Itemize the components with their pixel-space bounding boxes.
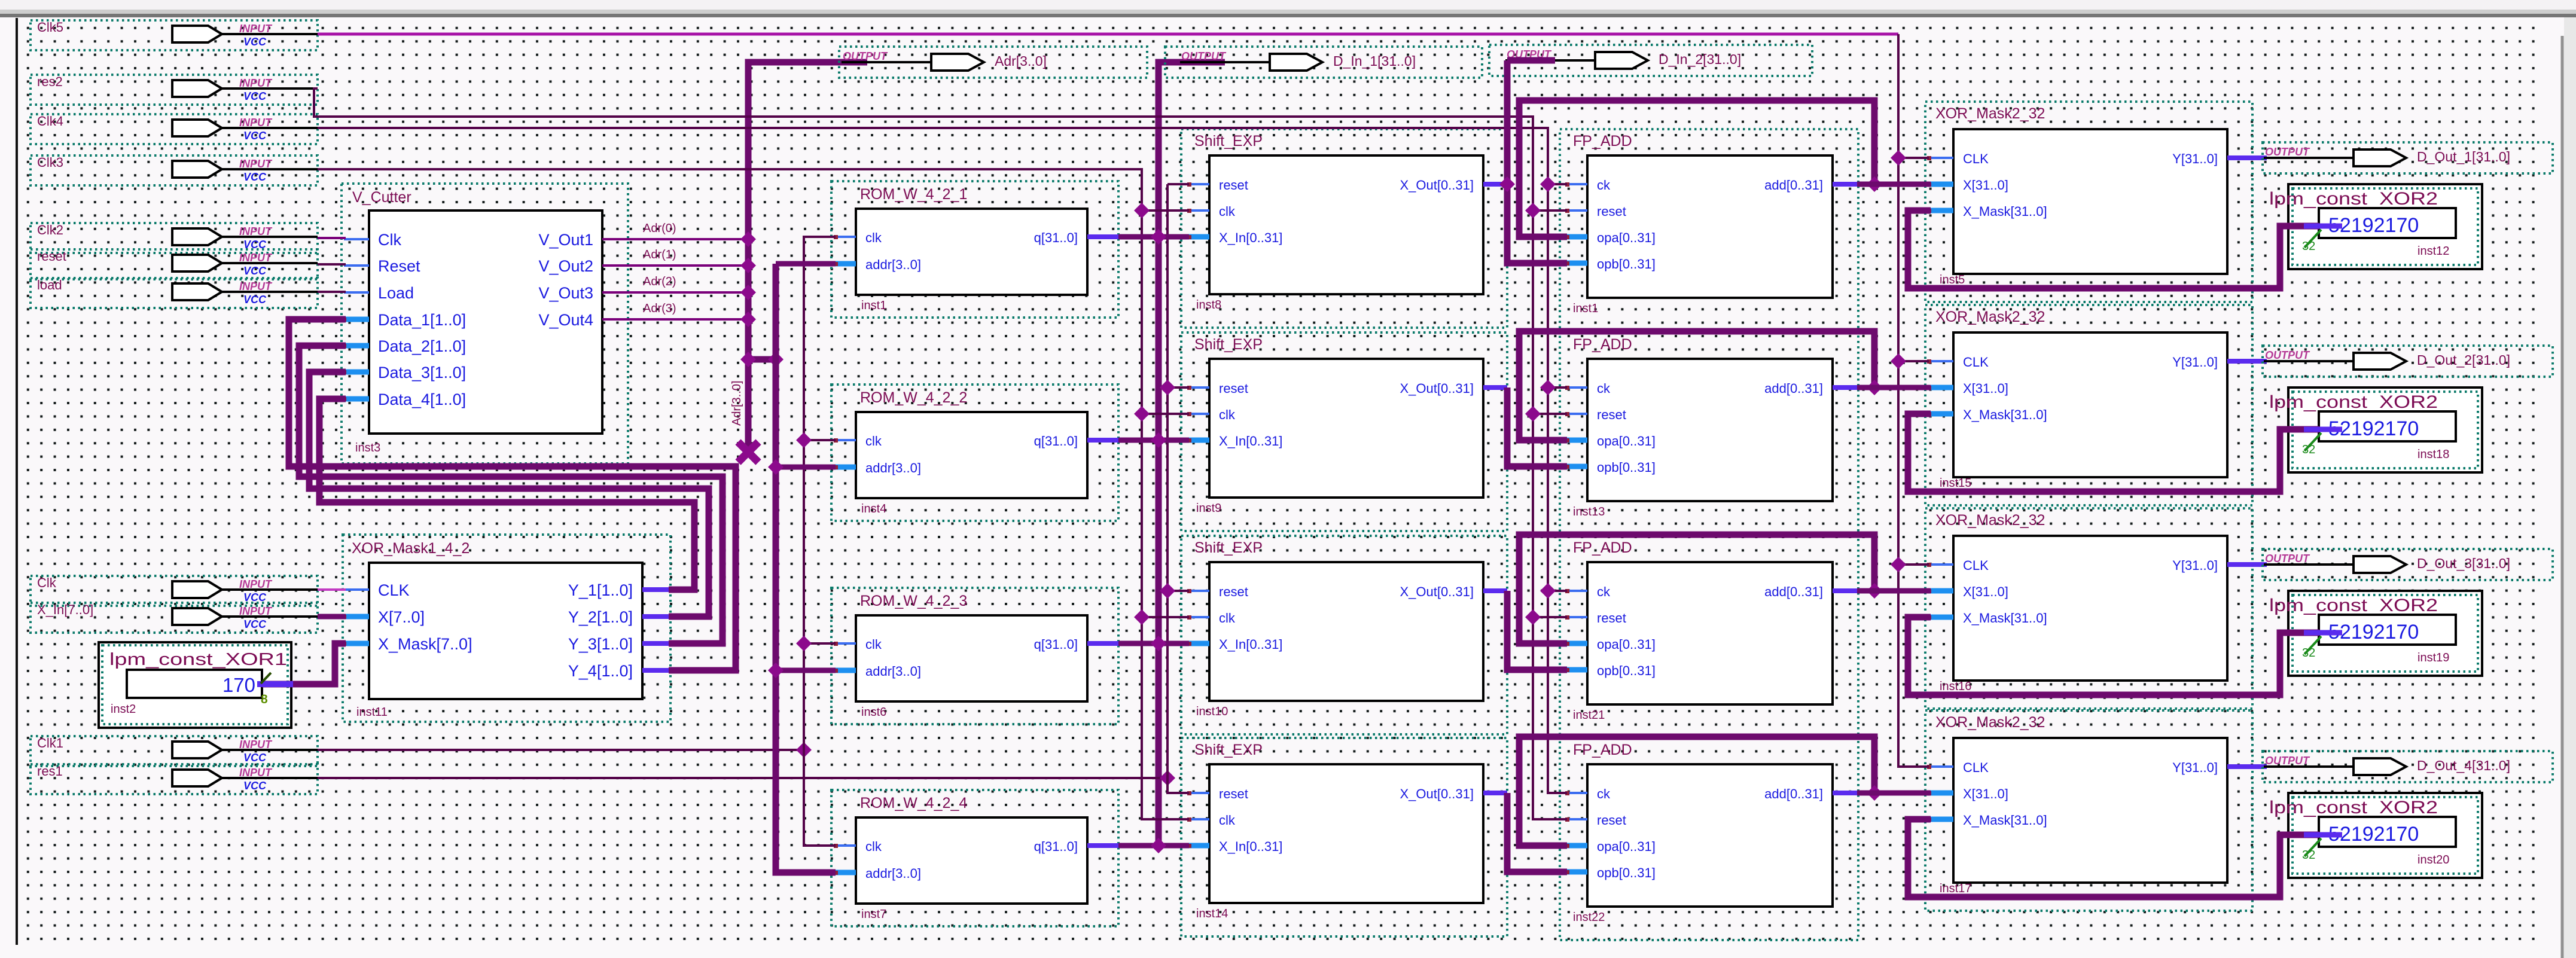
svg-text:CLK: CLK xyxy=(1963,558,1989,573)
svg-text:clk: clk xyxy=(865,434,882,449)
wire Shift reset chain vertical xyxy=(1167,184,1189,793)
svg-text:inst18: inst18 xyxy=(2418,448,2449,461)
svg-text:X_Out[0..31]: X_Out[0..31] xyxy=(1400,178,1474,193)
svg-text:Clk2: Clk2 xyxy=(37,222,63,237)
block Shift_EXP (inst9) xyxy=(1181,332,1507,531)
svg-text:inst15: inst15 xyxy=(1940,477,1971,490)
svg-text:opb[0..31]: opb[0..31] xyxy=(1597,865,1656,880)
svg-text:V_Out4: V_Out4 xyxy=(538,311,593,329)
bus ROM q to Shift X_In row 2 xyxy=(1118,438,1189,443)
svg-text:ck: ck xyxy=(1597,178,1611,193)
wire Clk5 to XOR CLK chain xyxy=(318,33,1898,36)
block lpm_const_XOR2 (inst19) value 52192170 xyxy=(2269,591,2482,676)
block lpm_const_XOR2 (inst20) value 52192170 xyxy=(2269,793,2482,878)
svg-text:inst4: inst4 xyxy=(861,502,886,515)
svg-text:OUTPUT: OUTPUT xyxy=(843,50,888,62)
input pin load xyxy=(31,277,318,308)
wire lpm_const_XOR2 inst18 to X_Mask[31..0] xyxy=(1908,414,2319,492)
svg-text:Adr(2): Adr(2) xyxy=(643,275,676,288)
wire Clk3 to Shift clk chain xyxy=(318,169,1189,819)
wire load to V_Cutter Load xyxy=(318,291,346,293)
svg-text:clk: clk xyxy=(1219,204,1236,219)
svg-text:XOR_Mask1_4_2: XOR_Mask1_4_2 xyxy=(352,540,470,557)
svg-text:8: 8 xyxy=(261,692,268,706)
svg-text:XOR_Mask2_32: XOR_Mask2_32 xyxy=(1935,105,2045,122)
svg-text:CLK: CLK xyxy=(378,581,410,599)
svg-text:X_In[0..31]: X_In[0..31] xyxy=(1219,230,1282,245)
svg-text:q[31..0]: q[31..0] xyxy=(1034,637,1078,652)
block XOR_Mask2_32 (inst16) xyxy=(1925,508,2267,709)
svg-text:clk: clk xyxy=(1219,611,1236,626)
svg-text:D_Out_1[31..0]: D_Out_1[31..0] xyxy=(2417,149,2510,164)
svg-text:X_In[7..0]: X_In[7..0] xyxy=(37,602,93,617)
svg-text:INPUT: INPUT xyxy=(239,225,273,237)
svg-text:FP_ADD: FP_ADD xyxy=(1573,742,1632,758)
output pin D_Out_1[31..0] xyxy=(2263,142,2553,173)
svg-text:inst7: inst7 xyxy=(861,908,886,921)
block lpm_const_XOR2 (inst12) value 52192170 xyxy=(2269,184,2482,269)
dangling bus X marker xyxy=(738,442,758,462)
svg-text:reset: reset xyxy=(1597,813,1626,828)
svg-text:inst2: inst2 xyxy=(111,703,136,716)
input pin Clk2 xyxy=(31,222,318,253)
svg-text:opa[0..31]: opa[0..31] xyxy=(1597,839,1656,854)
svg-text:X[31..0]: X[31..0] xyxy=(1963,786,2008,801)
svg-text:inst1: inst1 xyxy=(1573,302,1598,315)
svg-text:D_In_2[31..0]: D_In_2[31..0] xyxy=(1659,51,1741,67)
svg-text:inst8: inst8 xyxy=(1196,298,1221,312)
bus ROM q to Shift X_In row 1 xyxy=(1118,234,1189,240)
wire Clk to XOR_Mask1 CLK xyxy=(318,588,346,591)
svg-text:CLK: CLK xyxy=(1963,151,1989,166)
wire Clk1 to ROM clk chain xyxy=(318,749,804,751)
svg-text:INPUT: INPUT xyxy=(239,117,273,129)
svg-text:reset: reset xyxy=(37,249,66,264)
bus FP_ADD feedback row 3 xyxy=(1519,535,1874,643)
svg-text:inst6: inst6 xyxy=(861,706,886,719)
svg-text:Data_1[1..0]: Data_1[1..0] xyxy=(378,311,466,329)
svg-text:lpm_const_XOR2: lpm_const_XOR2 xyxy=(2269,596,2438,615)
svg-text:OUTPUT: OUTPUT xyxy=(2265,553,2310,565)
bus ROM addr vertical xyxy=(776,264,836,872)
bus Y to Data_4 xyxy=(319,399,694,590)
svg-text:X_Mask[7..0]: X_Mask[7..0] xyxy=(378,635,472,653)
svg-text:X_Out[0..31]: X_Out[0..31] xyxy=(1400,584,1474,599)
input pin X_In[7..0] xyxy=(31,602,318,633)
svg-text:ROM_W_4_2_4: ROM_W_4_2_4 xyxy=(860,795,967,811)
input pin reset xyxy=(31,249,318,279)
svg-text:X_Mask[31..0]: X_Mask[31..0] xyxy=(1963,611,2047,626)
bus Y to Data_3 xyxy=(309,372,709,617)
svg-text:opb[0..31]: opb[0..31] xyxy=(1597,257,1656,271)
svg-text:addr[3..0]: addr[3..0] xyxy=(865,866,921,881)
svg-text:XOR_Mask2_32: XOR_Mask2_32 xyxy=(1935,512,2045,529)
svg-text:170: 170 xyxy=(222,674,255,696)
svg-text:X_Mask[31..0]: X_Mask[31..0] xyxy=(1963,813,2047,828)
svg-text:clk: clk xyxy=(865,637,882,652)
block ROM_W_4_2_2 (inst4) xyxy=(831,385,1118,521)
svg-text:ROM_W_4_2_3: ROM_W_4_2_3 xyxy=(860,593,967,609)
bus FP_ADD feedback row 2 xyxy=(1519,331,1874,440)
svg-text:reset: reset xyxy=(1597,611,1626,626)
svg-text:Shift_EXP: Shift_EXP xyxy=(1194,742,1263,758)
svg-text:reset: reset xyxy=(1219,584,1248,599)
svg-text:CLK: CLK xyxy=(1963,355,1989,370)
wire res1 to Shift reset chain xyxy=(318,777,1167,779)
svg-text:V_Out2: V_Out2 xyxy=(538,257,593,275)
svg-text:OUTPUT: OUTPUT xyxy=(2265,755,2310,767)
wire V_Out1 / Adr(0) xyxy=(628,238,748,240)
svg-text:INPUT: INPUT xyxy=(239,252,273,264)
svg-text:ck: ck xyxy=(1597,786,1611,801)
svg-text:opa[0..31]: opa[0..31] xyxy=(1597,434,1656,449)
svg-text:Y[31..0]: Y[31..0] xyxy=(2172,151,2218,166)
svg-text:Adr(1): Adr(1) xyxy=(643,248,676,261)
right page border xyxy=(2561,36,2564,958)
output pin D_Out_3[31..0] xyxy=(2263,549,2553,580)
wire ROM clk chain vertical xyxy=(804,237,836,846)
svg-text:inst17: inst17 xyxy=(1940,882,1971,895)
top toolbar edge xyxy=(0,0,2576,11)
output pin D_Out_4[31..0] xyxy=(2263,751,2553,782)
svg-text:32: 32 xyxy=(2302,240,2315,253)
svg-text:lpm_const_XOR1: lpm_const_XOR1 xyxy=(109,650,287,669)
svg-text:inst12: inst12 xyxy=(2418,245,2449,258)
svg-text:q[31..0]: q[31..0] xyxy=(1034,434,1078,449)
bus add to X row 3 xyxy=(1857,588,1931,594)
svg-text:inst11: inst11 xyxy=(356,706,388,719)
svg-text:lpm_const_XOR2: lpm_const_XOR2 xyxy=(2269,189,2438,209)
svg-text:D_Out_2[31..0]: D_Out_2[31..0] xyxy=(2417,352,2510,368)
block FP_ADD (inst21) xyxy=(1560,536,1858,738)
input pin Clk5 xyxy=(31,20,318,50)
bus X_Out row2 to opb xyxy=(1507,388,1567,466)
svg-text:lpm_const_XOR2: lpm_const_XOR2 xyxy=(2269,798,2438,817)
svg-text:Y[31..0]: Y[31..0] xyxy=(2172,760,2218,775)
bus D_In_2 vertical xyxy=(1555,59,1595,62)
svg-text:clk: clk xyxy=(1219,813,1236,828)
svg-text:FP_ADD: FP_ADD xyxy=(1573,539,1632,556)
wire reset to V_Cutter Reset xyxy=(318,263,346,266)
svg-text:INPUT: INPUT xyxy=(239,767,273,779)
svg-text:X_In[0..31]: X_In[0..31] xyxy=(1219,637,1282,652)
svg-text:32: 32 xyxy=(2302,646,2315,660)
output pin Adr[3..0] xyxy=(839,47,1147,78)
wire lpm_const_XOR2 inst12 to X_Mask[31..0] xyxy=(1908,210,2319,288)
block lpm_const_XOR2 (inst18) value 52192170 xyxy=(2269,388,2482,472)
input pin Clk1 xyxy=(31,736,318,766)
svg-text:VCC: VCC xyxy=(243,130,267,142)
wire lpm_const_XOR1 to X_Mask[7..0] xyxy=(262,643,346,684)
input pin Clk3 xyxy=(31,155,318,185)
svg-text:q[31..0]: q[31..0] xyxy=(1034,839,1078,854)
svg-text:Load: Load xyxy=(378,284,414,302)
block XOR_Mask2_32 (inst17) xyxy=(1925,710,2267,911)
svg-text:X_Mask[31..0]: X_Mask[31..0] xyxy=(1963,204,2047,219)
svg-text:D_In_1[31..0]: D_In_1[31..0] xyxy=(1333,53,1416,69)
svg-text:VCC: VCC xyxy=(243,780,267,792)
svg-text:X[31..0]: X[31..0] xyxy=(1963,584,2008,599)
svg-text:Y[31..0]: Y[31..0] xyxy=(2172,355,2218,370)
block lpm_const_XOR1 (inst2) value 170 xyxy=(99,642,291,728)
svg-text:inst20: inst20 xyxy=(2418,853,2449,867)
svg-text:INPUT: INPUT xyxy=(239,77,273,89)
bus add to X row 2 xyxy=(1857,385,1931,390)
svg-text:inst13: inst13 xyxy=(1573,505,1605,518)
svg-text:VCC: VCC xyxy=(243,171,267,183)
svg-text:clk: clk xyxy=(1219,407,1236,422)
svg-text:Clk1: Clk1 xyxy=(37,736,63,750)
svg-text:OUTPUT: OUTPUT xyxy=(1181,50,1227,62)
svg-text:CLK: CLK xyxy=(1963,760,1989,775)
svg-text:X_In[0..31]: X_In[0..31] xyxy=(1219,839,1282,854)
svg-text:V_Out1: V_Out1 xyxy=(538,231,593,249)
svg-text:INPUT: INPUT xyxy=(239,739,273,750)
svg-text:32: 32 xyxy=(2302,849,2315,862)
left page border xyxy=(16,18,18,945)
svg-text:VCC: VCC xyxy=(243,294,267,306)
svg-text:X[31..0]: X[31..0] xyxy=(1963,178,2008,193)
bus X_Out row1 to opb and D_In_2 xyxy=(1507,57,1555,64)
svg-text:V_Out3: V_Out3 xyxy=(538,284,593,302)
bus ROM q to Shift X_In row 4 xyxy=(1118,843,1189,849)
block ROM_W_4_2_3 (inst6) xyxy=(831,588,1118,724)
svg-text:D_Out_3[31..0]: D_Out_3[31..0] xyxy=(2417,556,2510,571)
bus Y to Data_2 xyxy=(299,346,723,643)
svg-text:res2: res2 xyxy=(37,74,63,89)
wire V_Out3 / Adr(2) xyxy=(628,291,748,294)
svg-text:FP_ADD: FP_ADD xyxy=(1573,336,1632,353)
svg-text:Shift_EXP: Shift_EXP xyxy=(1194,336,1263,353)
svg-text:reset: reset xyxy=(1219,381,1248,396)
svg-text:XOR_Mask2_32: XOR_Mask2_32 xyxy=(1935,714,2045,731)
svg-text:OUTPUT: OUTPUT xyxy=(2265,349,2310,361)
svg-text:addr[3..0]: addr[3..0] xyxy=(865,664,921,679)
svg-text:clk: clk xyxy=(865,839,882,854)
svg-text:opb[0..31]: opb[0..31] xyxy=(1597,663,1656,678)
svg-text:INPUT: INPUT xyxy=(239,578,273,590)
bus FP_ADD feedback row 4 xyxy=(1519,737,1874,846)
svg-text:Shift_EXP: Shift_EXP xyxy=(1194,539,1263,556)
svg-text:inst22: inst22 xyxy=(1573,911,1605,924)
wire V_Out4 / Adr(3) xyxy=(628,318,748,321)
svg-text:VCC: VCC xyxy=(243,265,267,277)
svg-text:X[7..0]: X[7..0] xyxy=(378,608,425,626)
bus Y to Data_1 xyxy=(289,319,736,670)
svg-text:Adr(3): Adr(3) xyxy=(643,302,676,315)
svg-text:X[31..0]: X[31..0] xyxy=(1963,381,2008,396)
svg-text:addr[3..0]: addr[3..0] xyxy=(865,460,921,475)
bus width label 8 xyxy=(261,673,271,684)
svg-text:X_Out[0..31]: X_Out[0..31] xyxy=(1400,786,1474,801)
svg-text:XOR_Mask2_32: XOR_Mask2_32 xyxy=(1935,309,2045,325)
svg-text:Y_2[1..0]: Y_2[1..0] xyxy=(568,608,633,626)
svg-text:reset: reset xyxy=(1597,407,1626,422)
svg-text:VCC: VCC xyxy=(243,752,267,764)
svg-text:inst3: inst3 xyxy=(355,441,380,454)
svg-text:Adr[3..0]: Adr[3..0] xyxy=(730,380,743,426)
wire lpm_const_XOR2 inst19 to X_Mask[31..0] xyxy=(1908,617,2319,695)
block Shift_EXP (inst10) xyxy=(1181,536,1507,734)
block ROM_W_4_2_1 (inst1) xyxy=(831,181,1118,318)
svg-text:add[0..31]: add[0..31] xyxy=(1764,786,1823,801)
svg-text:INPUT: INPUT xyxy=(239,605,273,617)
svg-text:inst14: inst14 xyxy=(1196,907,1228,920)
svg-text:ck: ck xyxy=(1597,381,1611,396)
input pin res2 xyxy=(31,74,318,105)
svg-text:Y_3[1..0]: Y_3[1..0] xyxy=(568,635,633,653)
svg-text:INPUT: INPUT xyxy=(239,280,273,292)
svg-text:res1: res1 xyxy=(37,764,63,779)
svg-text:lpm_const_XOR2: lpm_const_XOR2 xyxy=(2269,392,2438,412)
svg-text:VCC: VCC xyxy=(243,36,267,48)
block Shift_EXP (inst8) xyxy=(1181,129,1507,328)
svg-text:Clk3: Clk3 xyxy=(37,155,63,170)
wire lpm_const_XOR2 inst20 to X_Mask[31..0] xyxy=(1908,819,2319,897)
bus add to X row 1 xyxy=(1857,182,1931,187)
svg-text:Y_1[1..0]: Y_1[1..0] xyxy=(568,581,633,599)
svg-text:add[0..31]: add[0..31] xyxy=(1764,584,1823,599)
input pin Clk4 xyxy=(31,114,318,144)
svg-text:D_Out_4[31..0]: D_Out_4[31..0] xyxy=(2417,758,2510,773)
svg-text:opb[0..31]: opb[0..31] xyxy=(1597,460,1656,475)
input pin res1 xyxy=(31,764,318,794)
svg-text:Data_3[1..0]: Data_3[1..0] xyxy=(378,364,466,382)
block Shift_EXP (inst14) xyxy=(1181,738,1507,936)
svg-text:Shift_EXP: Shift_EXP xyxy=(1194,133,1263,150)
svg-text:inst16: inst16 xyxy=(1940,680,1971,693)
output pin D_In_1[31..0] xyxy=(1165,47,1482,78)
svg-text:reset: reset xyxy=(1219,786,1248,801)
block XOR_Mask2_32 (inst5) xyxy=(1925,102,2267,302)
svg-text:X_Mask[31..0]: X_Mask[31..0] xyxy=(1963,407,2047,422)
svg-text:inst19: inst19 xyxy=(2418,651,2449,664)
block XOR_Mask2_32 (inst15) xyxy=(1925,305,2267,505)
wire V_Out2 / Adr(1) xyxy=(628,264,748,267)
block XOR_Mask1_4_2 (inst11) xyxy=(342,535,670,722)
svg-text:reset: reset xyxy=(1219,178,1248,193)
output pin D_Out_2[31..0] xyxy=(2263,346,2553,377)
block FP_ADD (inst1) xyxy=(1560,129,1858,331)
svg-text:inst10: inst10 xyxy=(1196,705,1228,718)
svg-text:ROM_W_4_2_1: ROM_W_4_2_1 xyxy=(860,186,967,203)
svg-text:inst5: inst5 xyxy=(1940,273,1965,286)
svg-text:Y[31..0]: Y[31..0] xyxy=(2172,558,2218,573)
wire Clk4 to FP ck chain xyxy=(318,128,1567,793)
svg-text:Data_4[1..0]: Data_4[1..0] xyxy=(378,390,466,408)
svg-text:OUTPUT: OUTPUT xyxy=(2265,146,2310,158)
svg-text:Reset: Reset xyxy=(378,257,420,275)
svg-text:load: load xyxy=(37,277,62,292)
block V_Cutter (inst3) xyxy=(342,184,628,463)
svg-text:ROM_W_4_2_2: ROM_W_4_2_2 xyxy=(860,389,967,406)
svg-text:addr[3..0]: addr[3..0] xyxy=(865,257,921,272)
svg-text:Clk4: Clk4 xyxy=(37,114,63,129)
bus X_Out row3 to opb xyxy=(1507,591,1567,670)
bus add to X row 4 xyxy=(1857,791,1931,796)
bus ROM q to Shift X_In row 3 xyxy=(1118,641,1189,646)
svg-text:opa[0..31]: opa[0..31] xyxy=(1597,230,1656,245)
svg-text:VCC: VCC xyxy=(243,618,267,630)
output pin D_In_2[31..0] xyxy=(1489,45,1812,76)
bus jog Adr to ROM addr column xyxy=(748,356,776,363)
svg-text:Clk: Clk xyxy=(37,575,57,590)
svg-text:inst21: inst21 xyxy=(1573,709,1605,722)
wire X_In to XOR_Mask1 X xyxy=(318,614,346,620)
bus D_In_1 vertical xyxy=(1159,62,1225,846)
block ROM_W_4_2_4 (inst7) xyxy=(831,790,1118,926)
svg-text:Adr(0): Adr(0) xyxy=(643,222,676,235)
svg-text:X_Out[0..31]: X_Out[0..31] xyxy=(1400,381,1474,396)
svg-text:reset: reset xyxy=(1597,204,1626,219)
svg-text:opa[0..31]: opa[0..31] xyxy=(1597,637,1656,652)
svg-text:q[31..0]: q[31..0] xyxy=(1034,230,1078,245)
svg-text:Adr[3..0]: Adr[3..0] xyxy=(995,53,1047,69)
bus FP_ADD feedback row 1 xyxy=(1519,100,1874,237)
input pin Clk xyxy=(31,575,318,606)
svg-text:Clk: Clk xyxy=(378,231,401,249)
svg-text:VCC: VCC xyxy=(243,90,267,102)
wire res2 to FP reset chain xyxy=(314,89,1567,819)
svg-text:inst1: inst1 xyxy=(861,299,886,312)
svg-text:INPUT: INPUT xyxy=(239,158,273,170)
svg-text:32: 32 xyxy=(2302,443,2315,456)
svg-text:Clk5: Clk5 xyxy=(37,20,63,35)
svg-text:V_Cutter: V_Cutter xyxy=(352,189,411,206)
block FP_ADD (inst13) xyxy=(1560,332,1858,535)
bus Adr[3..0] to output xyxy=(748,62,867,452)
svg-text:ck: ck xyxy=(1597,584,1611,599)
svg-text:Y_4[1..0]: Y_4[1..0] xyxy=(568,662,633,680)
block FP_ADD (inst22) xyxy=(1560,738,1858,940)
svg-text:INPUT: INPUT xyxy=(239,23,273,35)
svg-text:FP_ADD: FP_ADD xyxy=(1573,133,1632,150)
svg-text:add[0..31]: add[0..31] xyxy=(1764,381,1823,396)
svg-text:Data_2[1..0]: Data_2[1..0] xyxy=(378,337,466,355)
svg-text:inst9: inst9 xyxy=(1196,502,1221,515)
svg-text:X_In[0..31]: X_In[0..31] xyxy=(1219,434,1282,449)
bus X_Out row4 to opb xyxy=(1507,793,1567,872)
wire XOR CLK chain vertical xyxy=(1898,34,1929,767)
svg-text:clk: clk xyxy=(865,230,882,245)
svg-text:add[0..31]: add[0..31] xyxy=(1764,178,1823,193)
wire Clk2 to V_Cutter Clk xyxy=(318,237,346,239)
